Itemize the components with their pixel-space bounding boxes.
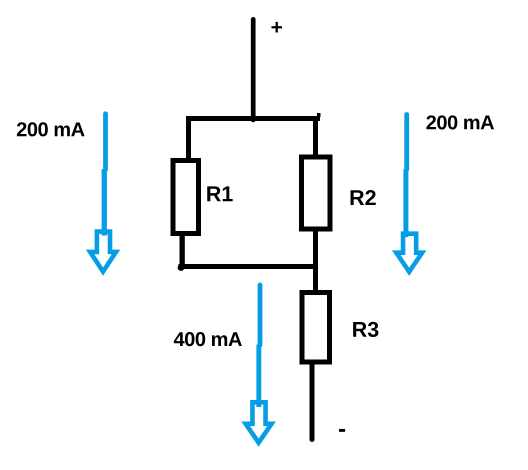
current arrow left: shaft upper segment <box>103 114 108 170</box>
current arrow middle: shaft upper segment <box>258 285 263 345</box>
resistor R1 (box) <box>173 161 199 234</box>
wire: R1 bottom lead down to bottom rail <box>180 234 185 267</box>
current arrow middle: hollow arrowhead <box>246 402 272 442</box>
resistor R3 (box) <box>302 293 330 363</box>
label - (negative terminal) <box>339 429 345 432</box>
current arrow middle: shaft lower segment <box>256 345 261 408</box>
wire: middle run from R2 bottom through rail to R3 top <box>313 228 318 292</box>
wire: junction nub at top-right corner <box>317 113 321 117</box>
label 200 mA (right) <box>426 115 494 129</box>
label R1 <box>207 186 232 201</box>
resistor R2 (box) <box>302 157 331 229</box>
current arrow right: hollow arrowhead <box>396 234 422 272</box>
wire: R3 bottom lead (negative terminal) <box>310 363 315 440</box>
wire: left drop from top rail to R1 <box>186 116 191 160</box>
wire: round nub at left end of bottom rail <box>178 264 185 271</box>
label R3 <box>353 322 378 337</box>
wire: bottom rail (node joining R1, R2 bottoms to R3) <box>179 264 318 269</box>
current arrow right: shaft upper segment <box>404 115 409 170</box>
current arrow right: shaft lower segment <box>403 169 408 237</box>
label 400 mA <box>174 332 242 346</box>
current arrow left: hollow arrowhead <box>90 232 116 272</box>
label 200 mA (left) <box>17 122 85 136</box>
label + (positive terminal) <box>271 22 282 33</box>
wire: + supply lead (top vertical) <box>251 19 256 120</box>
wire: right drop from top rail to R2 <box>313 116 318 157</box>
label R2 <box>351 190 376 205</box>
wire: top rail (node joining R1 and R2 tops) <box>186 116 320 121</box>
current arrow left: shaft lower segment <box>102 169 107 235</box>
